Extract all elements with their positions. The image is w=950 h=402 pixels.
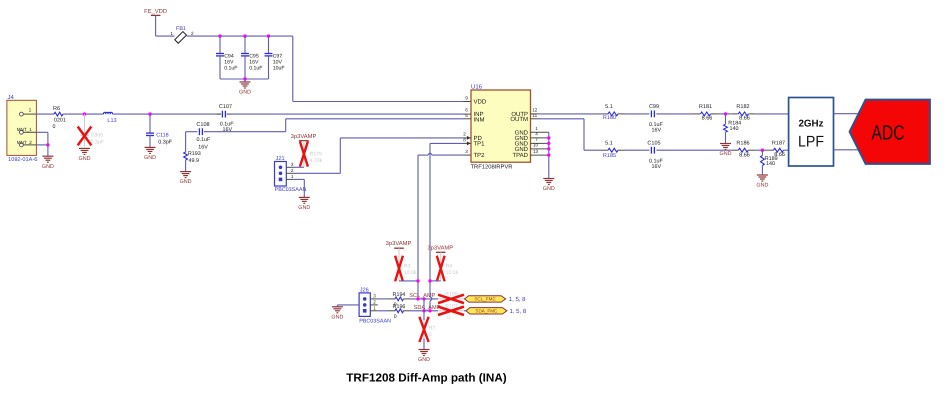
svg-text:R180: R180 — [603, 115, 616, 121]
svg-text:GND: GND — [756, 183, 768, 189]
wire R187 to LPF — [784, 149, 789, 151]
svg-text:4.70k: 4.70k — [310, 158, 323, 164]
svg-text:MNT_2: MNT_2 — [17, 140, 33, 145]
ground C306 — [79, 147, 90, 149]
resistor R187 — [770, 149, 773, 151]
svg-text:PBC03SAAN: PBC03SAAN — [275, 187, 307, 193]
svg-text:TRF1208 Diff-Amp path (INA): TRF1208 Diff-Amp path (INA) — [346, 372, 506, 385]
junction SCL / TP2 vertical — [416, 297, 419, 300]
svg-text:8.66: 8.66 — [739, 153, 750, 159]
ferrite bead FB1 — [175, 32, 187, 44]
capacitor C94 — [219, 36, 221, 53]
svg-text:TPAD: TPAD — [512, 152, 528, 159]
wire J21 pin1 to ground — [294, 178, 305, 180]
junction SCL / pulldown vertical — [422, 297, 425, 300]
junction gnd bus pin7 — [547, 142, 550, 145]
ground C118 — [145, 146, 156, 148]
wire R4 to SDA vertical — [430, 280, 441, 282]
svg-text:1, 5, 8: 1, 5, 8 — [510, 308, 527, 315]
svg-text:VDD: VDD — [474, 99, 487, 106]
wire FE_VDD down — [155, 15, 157, 36]
svg-text:0.1uF: 0.1uF — [249, 66, 262, 72]
resistor R185 — [601, 149, 608, 151]
node C118 junction — [148, 112, 151, 115]
J21 pin 2 stub — [286, 172, 294, 174]
svg-text:GND: GND — [543, 186, 555, 192]
svg-text:1: 1 — [535, 126, 538, 131]
svg-text:12: 12 — [532, 107, 538, 112]
svg-text:GND: GND — [144, 155, 156, 161]
connector J21 — [275, 162, 287, 187]
svg-text:16V: 16V — [652, 128, 662, 134]
svg-text:3p3VAMP: 3p3VAMP — [386, 240, 412, 247]
J26 pin 2 stub — [370, 304, 378, 306]
svg-text:8.66: 8.66 — [702, 116, 713, 122]
svg-text:GND: GND — [331, 314, 343, 320]
svg-text:3p3VAMP: 3p3VAMP — [427, 245, 453, 252]
port SDA_FMC — [466, 308, 507, 314]
ground U16 — [543, 178, 554, 180]
svg-text:FB1: FB1 — [176, 26, 186, 32]
capacitor C95 — [244, 36, 246, 53]
svg-text:R185: R185 — [603, 153, 616, 159]
power port FE_VDD — [151, 14, 161, 16]
svg-text:OUTM: OUTM — [510, 116, 528, 123]
U16 pin 10 GND — [531, 148, 549, 150]
svg-text:L13: L13 — [107, 118, 116, 124]
block 2GHz LPF — [789, 98, 834, 167]
svg-text:1, 5, 8: 1, 5, 8 — [509, 296, 526, 303]
resistor R193 — [185, 132, 187, 152]
wire decoupling bottom rail — [220, 78, 269, 80]
ground J26 — [336, 305, 338, 307]
svg-text:R3: R3 — [404, 263, 411, 269]
svg-text:INM: INM — [474, 117, 485, 124]
U16 pin 9 VDD — [463, 101, 471, 103]
svg-text:10: 10 — [533, 143, 539, 148]
capacitor C97 — [268, 36, 270, 53]
U16 pin 2 PD — [463, 137, 471, 139]
U16 pin 12 OUTP — [531, 113, 539, 115]
svg-text:0: 0 — [53, 124, 56, 130]
junction SDA / TP1 vertical — [428, 309, 431, 312]
junction MNT ground — [46, 143, 49, 146]
svg-text:SCL_FMC: SCL_FMC — [474, 297, 496, 302]
wire J26 pin1 to R196 — [378, 310, 388, 312]
svg-text:1: 1 — [291, 174, 294, 179]
wire TP2 to SCL vertical — [418, 154, 428, 156]
svg-text:R194: R194 — [393, 292, 406, 298]
wire R194 to SCL junctions — [411, 298, 439, 300]
wire J21 pin3 to R179 — [294, 166, 304, 168]
inductor L13 — [104, 112, 113, 114]
resistor R182 — [731, 113, 738, 115]
capacitor C99 — [648, 113, 651, 115]
resistor R184 — [725, 114, 727, 124]
svg-text:0.1uF: 0.1uF — [224, 66, 237, 72]
svg-text:16V: 16V — [652, 164, 662, 170]
wire U16 ground bus — [548, 132, 550, 178]
resistor R4 (DNP) — [440, 252, 442, 281]
U16 pin 8 TP1 — [463, 142, 471, 144]
junction gnd bus pin13 — [547, 153, 550, 156]
wire R185 to C105 — [625, 149, 649, 151]
wire J26 pin3 to R194 — [378, 298, 388, 300]
wire R196 to SDA junctions — [411, 310, 439, 312]
svg-text:9: 9 — [465, 95, 468, 100]
svg-text:R182: R182 — [736, 104, 749, 110]
ground J21 — [299, 196, 310, 198]
svg-text:0: 0 — [447, 315, 450, 321]
wire L13 to C107 — [113, 113, 222, 115]
resistor R179 (DNP) — [303, 141, 305, 168]
resistor R6 — [54, 112, 63, 116]
svg-text:5.1: 5.1 — [605, 141, 613, 147]
junction R184 tap — [724, 112, 727, 115]
junction SDA / pulldown vertical — [422, 309, 425, 312]
ground R189 — [757, 174, 768, 176]
svg-text:TP1: TP1 — [474, 141, 486, 148]
svg-text:LPF: LPF — [798, 134, 824, 151]
svg-text:GND: GND — [515, 146, 529, 153]
svg-text:C108: C108 — [196, 122, 209, 128]
svg-text:TP2: TP2 — [474, 152, 486, 159]
wire C99 to R181 — [658, 113, 694, 115]
svg-text:R179: R179 — [310, 151, 323, 157]
svg-text:GND: GND — [180, 179, 192, 185]
wire SCL to pulldown resistor — [423, 299, 425, 320]
svg-text:R187: R187 — [772, 141, 785, 147]
svg-text:C99: C99 — [649, 104, 659, 110]
svg-text:10.0k: 10.0k — [404, 270, 417, 276]
wire FB1 to decoupling rail — [187, 35, 293, 37]
svg-text:1: 1 — [170, 31, 173, 36]
svg-text:2: 2 — [463, 132, 466, 137]
J26 pin 1 stub — [370, 310, 378, 312]
svg-text:0201: 0201 — [54, 118, 66, 124]
svg-text:1092-01A-6: 1092-01A-6 — [8, 157, 37, 163]
svg-text:ADC: ADC — [872, 122, 905, 145]
svg-text:3: 3 — [465, 149, 468, 154]
svg-text:TRF1208IRPVR: TRF1208IRPVR — [471, 164, 513, 171]
svg-text:6: 6 — [465, 108, 468, 113]
svg-text:0.3pF: 0.3pF — [91, 139, 105, 145]
svg-text:0.3pF: 0.3pF — [158, 140, 172, 146]
resistor R181 — [694, 113, 701, 115]
svg-text:FE_VDD: FE_VDD — [144, 9, 167, 15]
svg-text:10.0k: 10.0k — [446, 270, 459, 276]
svg-text:1: 1 — [373, 305, 376, 310]
U16 pin 4 GND — [531, 137, 549, 139]
U16 pin 7 GND — [531, 142, 549, 144]
wire J21 pin2 to PD — [294, 172, 341, 174]
resistor R3 (DNP) — [398, 248, 400, 281]
wire R195 to SCL_FMC flag — [463, 298, 466, 300]
junction C94 — [218, 34, 221, 37]
wire R180 to C99 — [625, 113, 649, 115]
capacitor C108 — [186, 131, 198, 133]
ground I2C pulldown — [419, 349, 430, 351]
svg-text:C306: C306 — [91, 133, 104, 139]
wire R3 to SCL vertical — [399, 280, 418, 282]
svg-text:7: 7 — [535, 137, 538, 142]
resistor R186 — [731, 149, 738, 151]
capacitor C306 (DNP) — [84, 114, 86, 131]
power port 3p3VAMP (J21 pullup) — [299, 140, 309, 142]
wire MNT_1 to MNT_2 join — [36, 131, 48, 133]
svg-text:2: 2 — [191, 31, 194, 36]
junction C95 — [243, 34, 246, 37]
U16 pin 5 INM — [463, 118, 471, 120]
J21 pin 1 stub — [286, 178, 294, 180]
svg-text:C105: C105 — [647, 141, 660, 147]
resistor R7 pulldown (DNP) — [423, 320, 425, 338]
svg-text:3: 3 — [291, 162, 294, 167]
svg-text:2: 2 — [373, 299, 376, 304]
ground J4 mounting — [47, 145, 49, 156]
U16 pin 3 TP2 — [463, 154, 471, 156]
wire R6 to L13 — [63, 113, 104, 115]
capacitor C105 — [648, 149, 651, 151]
svg-text:R4: R4 — [446, 263, 453, 269]
port SCL_FMC — [465, 296, 506, 302]
wire R181 to R182 — [718, 113, 732, 115]
resistor R195 (DNP) — [438, 298, 464, 300]
U16 pin 1 GND — [531, 131, 549, 133]
svg-text:C107: C107 — [219, 104, 232, 110]
J26 pin 3 stub — [370, 298, 378, 300]
svg-text:PBC03SAAN: PBC03SAAN — [359, 318, 391, 324]
svg-text:GND: GND — [239, 90, 251, 96]
svg-text:GND: GND — [298, 205, 310, 211]
svg-text:U16: U16 — [471, 83, 483, 90]
junction R189 tap — [761, 149, 764, 152]
svg-text:0: 0 — [429, 332, 432, 338]
wire R186 to R187 — [755, 149, 770, 151]
junction C97 — [267, 34, 270, 37]
ground R193 — [180, 171, 191, 173]
wire OUTM to R185 — [539, 118, 585, 120]
svg-text:13: 13 — [533, 149, 539, 154]
svg-text:GND: GND — [720, 151, 732, 157]
svg-text:8: 8 — [463, 137, 466, 142]
svg-text:10uF: 10uF — [273, 66, 285, 72]
svg-text:4: 4 — [535, 132, 538, 137]
wire MNT_2 to ground — [36, 144, 48, 146]
resistor R180 — [601, 113, 608, 115]
svg-text:11: 11 — [532, 113, 537, 118]
wire LPF to ADC top — [834, 113, 858, 115]
wire pulldown to ground — [423, 339, 425, 350]
capacitor C118 — [149, 114, 151, 133]
svg-text:2: 2 — [291, 168, 294, 173]
wire LPF to ADC bottom — [834, 149, 861, 151]
svg-text:R186: R186 — [736, 141, 749, 147]
wire OUTP to R180 — [539, 113, 602, 115]
U16 pin 11 OUTM — [531, 118, 539, 120]
svg-text:3: 3 — [373, 293, 376, 298]
svg-text:R6: R6 — [53, 106, 60, 112]
junction R3/vertical — [416, 279, 419, 282]
resistor R197 (DNP) — [438, 310, 464, 312]
power port 3p3VAMP (R4) — [436, 251, 446, 253]
junction gnd bus pin10 — [547, 147, 550, 150]
svg-text:R181: R181 — [699, 104, 712, 110]
connector J4 — [7, 100, 37, 155]
svg-text:J26: J26 — [360, 287, 369, 293]
svg-text:C118: C118 — [156, 133, 169, 139]
J21 pin 3 stub — [286, 166, 294, 168]
junction bottom rail — [243, 77, 246, 80]
svg-text:R193: R193 — [188, 151, 201, 157]
connector J26 — [359, 293, 370, 317]
svg-text:140: 140 — [730, 126, 739, 132]
capacitor C107 — [217, 113, 221, 115]
U16 pin 13 TPAD — [531, 154, 549, 156]
wire R182 to LPF — [755, 113, 788, 115]
resistor R196 — [388, 310, 395, 312]
op-amp U16 TRF1208IRPVR — [471, 90, 531, 162]
svg-text:J21: J21 — [276, 156, 285, 162]
junction R4/vertical — [428, 279, 431, 282]
svg-text:3p3VAMP: 3p3VAMP — [291, 133, 317, 140]
svg-text:R196: R196 — [393, 304, 406, 310]
svg-text:5: 5 — [465, 113, 468, 118]
svg-text:MNT_1: MNT_1 — [17, 127, 33, 132]
svg-text:SDA_FMC: SDA_FMC — [475, 309, 498, 314]
wire J26 pin2 to ground — [337, 304, 359, 306]
svg-text:SCL_AMP: SCL_AMP — [409, 293, 435, 299]
wire C107 to INP — [227, 113, 463, 115]
svg-text:2GHz: 2GHz — [798, 119, 823, 130]
resistor R194 — [388, 298, 395, 300]
svg-text:SDA_AMP: SDA_AMP — [414, 305, 441, 311]
power port 3p3VAMP (R3) — [394, 247, 404, 249]
ground decoupling caps — [244, 79, 246, 82]
svg-text:1: 1 — [29, 107, 32, 113]
J4 pin MNT_2 — [23, 144, 36, 146]
wire TP1 to SDA vertical — [430, 142, 463, 144]
J4 pin 1 — [23, 113, 36, 115]
resistor R189 — [761, 150, 763, 155]
junction gnd bus pin4 — [547, 136, 550, 139]
wire rail to VDD pin — [292, 36, 294, 101]
svg-text:GND: GND — [79, 156, 91, 162]
svg-text:R7: R7 — [429, 325, 436, 331]
svg-text:J4: J4 — [8, 94, 15, 101]
wire C105 to R186 — [658, 149, 731, 151]
svg-text:GND: GND — [418, 357, 430, 363]
J4 pin MNT_1 — [23, 131, 36, 133]
svg-text:49.9: 49.9 — [189, 158, 200, 164]
node C306 junction — [83, 112, 86, 115]
svg-text:0: 0 — [394, 314, 397, 320]
ground R184 — [720, 143, 731, 145]
svg-text:5.1: 5.1 — [605, 104, 613, 110]
wire C108 up to INM — [285, 119, 287, 132]
wire R197 to SDA_FMC flag — [464, 310, 466, 312]
wire J4 pin1 to R6 — [36, 113, 54, 115]
svg-text:140: 140 — [766, 161, 775, 167]
svg-text:0.1uF: 0.1uF — [197, 137, 211, 143]
block ADC — [850, 100, 930, 164]
svg-text:GND: GND — [42, 164, 54, 170]
svg-text:16V: 16V — [198, 144, 208, 150]
U16 pin 6 INP — [463, 113, 471, 115]
